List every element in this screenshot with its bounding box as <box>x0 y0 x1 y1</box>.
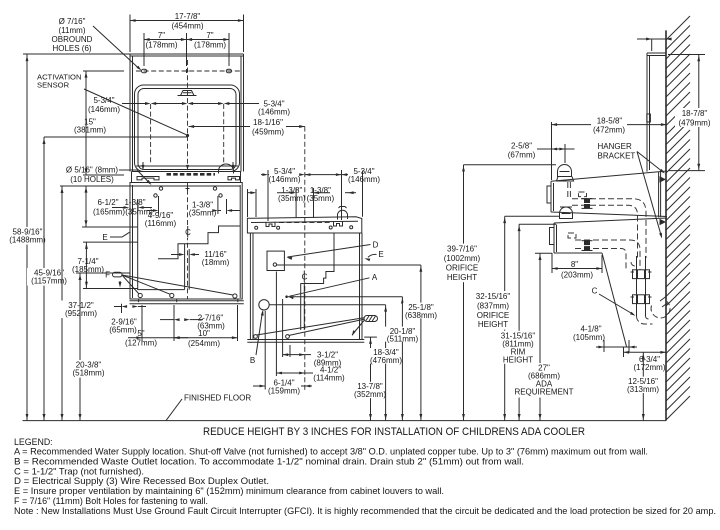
short unit rim plate <box>247 217 361 233</box>
internal drain pipe tall unit <box>184 244 186 290</box>
dim 1-3/8 cabinet edge <box>112 207 126 209</box>
A supply point <box>285 295 288 298</box>
svg-text:SENSOR: SENSOR <box>37 81 70 90</box>
svg-text:(35mm): (35mm) <box>307 194 335 203</box>
hanger bracket top detail <box>647 114 651 122</box>
svg-text:(146mm): (146mm) <box>258 107 290 116</box>
basin tall unit outer <box>135 85 240 172</box>
svg-text:(159mm): (159mm) <box>268 387 300 396</box>
svg-text:5-3/4": 5-3/4" <box>93 96 114 105</box>
svg-text:(185mm): (185mm) <box>72 265 104 274</box>
svg-text:HANGER: HANGER <box>598 142 632 151</box>
lower unit bubbler dome in left view <box>219 164 234 174</box>
dim 4-1/2 <box>276 372 304 374</box>
svg-text:E: E <box>102 233 107 242</box>
upper unit valve block <box>584 199 590 203</box>
svg-text:1-3/8": 1-3/8" <box>124 198 145 207</box>
svg-text:(165mm): (165mm) <box>93 208 125 217</box>
upper unit underside <box>551 212 667 217</box>
cabinet centerline <box>187 182 189 299</box>
upper bubbler side view <box>557 165 574 181</box>
extension verticals below short unit <box>264 311 266 390</box>
svg-text:(459mm): (459mm) <box>252 128 284 137</box>
svg-text:D = Electrical Supply (3) Wire: D = Electrical Supply (3) Wire Recessed … <box>14 476 269 486</box>
dim 8 inch knee depth <box>551 253 553 273</box>
side view lower unit front face <box>553 223 555 253</box>
svg-text:(18mm): (18mm) <box>202 258 230 267</box>
centerline symbol short unit <box>301 271 308 282</box>
svg-text:B = Recommended Waste Outlet l: B = Recommended Waste Outlet location. T… <box>14 456 524 466</box>
svg-text:32-15/16": 32-15/16" <box>476 292 511 301</box>
dim 17-7/8 454mm top width <box>129 15 131 53</box>
wall section line <box>665 30 667 420</box>
svg-text:(172mm): (172mm) <box>633 363 665 372</box>
svg-text:(178mm): (178mm) <box>194 41 226 50</box>
hanger bracket plate edge-on <box>658 172 660 218</box>
upper unit internal piping dashed <box>572 199 646 258</box>
outlet height ref line <box>277 264 421 266</box>
dim 6-1/4 <box>253 385 265 387</box>
dim 3-1/2 <box>283 354 305 356</box>
leaders F to bolt holes <box>122 275 139 294</box>
dim 32-15/16 orifice height <box>505 215 559 217</box>
dim 39-7/16 orifice height <box>464 164 557 166</box>
dashed hole extension right <box>223 104 225 163</box>
svg-text:(11mm): (11mm) <box>59 26 86 35</box>
short unit rim bolt dots <box>255 226 258 229</box>
dim 5-3/4 basin line <box>122 103 148 105</box>
upper hanger bracket at wall <box>660 176 667 182</box>
svg-text:39-7/16": 39-7/16" <box>447 245 477 254</box>
lower holes row arrows <box>136 165 238 167</box>
lower hanger bracket at wall <box>660 219 667 225</box>
bubbler tall unit <box>178 91 197 96</box>
svg-text:(35mm): (35mm) <box>278 194 306 203</box>
svg-text:8": 8" <box>571 260 578 269</box>
dim 6-1/2 vertical <box>85 186 87 227</box>
svg-text:C: C <box>592 287 598 296</box>
dim 6-3/4 <box>623 347 625 357</box>
internal trap stair tall unit <box>158 226 241 259</box>
svg-text:(146mm): (146mm) <box>268 175 300 184</box>
dim 2-9/16 <box>121 304 123 313</box>
svg-text:(178mm): (178mm) <box>145 41 177 50</box>
svg-text:B: B <box>250 356 255 365</box>
svg-text:(476mm): (476mm) <box>370 356 402 365</box>
svg-text:(203mm): (203mm) <box>561 271 593 280</box>
dim 12-5/16 height <box>642 352 644 420</box>
svg-text:(1488mm): (1488mm) <box>9 236 46 245</box>
svg-text:(1002mm): (1002mm) <box>444 254 481 263</box>
dim 31-15/16 rim height <box>519 223 556 225</box>
svg-text:2-5/8": 2-5/8" <box>511 142 532 151</box>
svg-text:F: F <box>105 271 110 280</box>
svg-text:(454mm): (454mm) <box>171 22 203 31</box>
svg-text:Note : New Installations Must: Note : New Installations Must Use Ground… <box>14 506 716 516</box>
svg-text:BRACKET: BRACKET <box>598 152 636 161</box>
svg-text:(479mm): (479mm) <box>678 119 710 128</box>
svg-text:LEGEND:: LEGEND: <box>14 437 53 447</box>
svg-text:18-5/8": 18-5/8" <box>597 116 623 125</box>
side view upper unit front face <box>550 181 552 212</box>
B waste outlet circle <box>259 300 269 310</box>
cabinet of tall unit <box>130 183 242 300</box>
dim 7-1/4 louver height <box>83 241 138 243</box>
internal drain pipe short unit <box>300 284 302 331</box>
svg-text:REQUIREMENT: REQUIREMENT <box>514 388 573 397</box>
svg-text:17-7/8": 17-7/8" <box>175 12 201 21</box>
svg-text:(63mm): (63mm) <box>197 322 225 331</box>
dim 10 inch <box>237 305 239 341</box>
svg-text:(146mm): (146mm) <box>88 105 120 114</box>
short unit centerline <box>304 127 306 391</box>
lower unit underside and shroud diagonal <box>554 252 602 254</box>
svg-text:REDUCE HEIGHT BY 3 INCHES FOR: REDUCE HEIGHT BY 3 INCHES FOR INSTALLATI… <box>203 426 585 438</box>
svg-text:A: A <box>372 273 378 282</box>
svg-text:(105mm): (105mm) <box>573 333 605 342</box>
short unit rim hooks <box>266 222 275 227</box>
wall hatching <box>666 16 690 420</box>
svg-text:HEIGHT: HEIGHT <box>478 320 508 329</box>
svg-text:18-1/16": 18-1/16" <box>253 118 283 127</box>
lower unit internal piping dashed <box>575 240 640 270</box>
basin centerline dashed <box>187 60 189 170</box>
svg-text:ORIFICE: ORIFICE <box>477 311 509 320</box>
lower unit top slope <box>554 218 667 223</box>
svg-text:HEIGHT: HEIGHT <box>447 273 477 282</box>
svg-text:(352mm): (352mm) <box>354 390 386 399</box>
extension lines 5-3/4 short <box>267 170 269 221</box>
lower bubbler side view <box>560 207 573 219</box>
svg-text:6-1/2": 6-1/2" <box>97 198 118 207</box>
dim 25-1/8 height <box>420 265 422 421</box>
svg-text:7": 7" <box>158 31 165 40</box>
leaders to wall anchor <box>257 318 365 335</box>
left height dim 58-9/16 <box>26 54 28 421</box>
dim 18-5/8 projection <box>552 124 592 126</box>
dim 20-1/8 height <box>401 297 403 421</box>
short unit bottom flange <box>247 339 364 341</box>
short unit cabinet <box>250 233 362 340</box>
dim 18-7/8 height at wall <box>668 54 705 56</box>
svg-text:(511mm): (511mm) <box>387 334 419 343</box>
svg-text:18-7/8": 18-7/8" <box>682 109 708 118</box>
svg-text:7": 7" <box>206 31 213 40</box>
left height dim 37-1/2 <box>61 186 63 421</box>
dim 18-1/16 bubbler spacing <box>189 126 251 128</box>
sensor dot <box>186 134 189 137</box>
apron rim of tall unit <box>132 171 241 173</box>
svg-text:(114mm): (114mm) <box>313 374 345 383</box>
left height dim 20-3/8 <box>79 273 81 421</box>
short unit rim edge extensions <box>247 189 249 217</box>
svg-text:(381mm): (381mm) <box>74 126 106 135</box>
svg-text:(952mm): (952mm) <box>65 309 97 318</box>
left height dim 45-9/16 <box>44 136 187 138</box>
wall stub dashed arc <box>651 302 670 318</box>
trap assembly solid <box>637 256 646 316</box>
svg-text:(127mm): (127mm) <box>125 339 157 348</box>
leader activation sensor to sensor dot <box>84 89 186 135</box>
svg-text:(638mm): (638mm) <box>405 311 437 320</box>
cabinet bottom flange <box>130 300 244 302</box>
svg-text:C = 1-1/2" Trap (not furnished: C = 1-1/2" Trap (not furnished). <box>14 466 144 476</box>
svg-text:(65mm): (65mm) <box>109 326 137 335</box>
dim 11/16 drain offset <box>171 254 182 256</box>
electrical outlet box <box>267 251 284 270</box>
svg-text:5": 5" <box>137 329 144 338</box>
dim 2-5/8 bubbler offset <box>551 122 553 180</box>
short unit bubbler dome <box>338 207 348 220</box>
dim 27 ada requirement <box>535 252 552 254</box>
svg-text:(518mm): (518mm) <box>72 369 104 378</box>
lower unit valve block <box>584 241 590 245</box>
svg-text:D: D <box>373 241 379 250</box>
arrow to louver bottom <box>119 282 122 288</box>
svg-text:(10 HOLES): (10 HOLES) <box>70 175 114 184</box>
basin tall unit inner <box>138 89 236 170</box>
front view tall unit - wall back panel <box>23 53 244 55</box>
dashed hole extension left <box>150 104 152 163</box>
svg-text:E: E <box>378 250 383 259</box>
svg-text:(254mm): (254mm) <box>188 339 220 348</box>
cabinet top band bolt holes <box>159 187 162 190</box>
svg-text:(472mm): (472mm) <box>593 126 625 135</box>
F bolt holes on cabinet bottom <box>138 293 142 297</box>
dim ref line holes row 186 <box>60 185 240 187</box>
dim 5 inch <box>141 305 143 341</box>
svg-text:(67mm): (67mm) <box>508 151 536 160</box>
louver panel tall unit <box>138 199 185 290</box>
hanger bracket leaders <box>637 152 663 173</box>
dim 5-3/4 short unit right <box>305 174 342 176</box>
svg-text:(146mm): (146mm) <box>348 175 380 184</box>
in-wall mounting panel edge <box>646 53 648 172</box>
apron left bracket <box>137 177 159 180</box>
trap J bend dashed to wall <box>637 316 653 324</box>
svg-text:OBROUND: OBROUND <box>52 35 93 44</box>
svg-text:ORIFICE: ORIFICE <box>446 263 478 272</box>
dim 18-3/4 height <box>385 305 387 421</box>
svg-text:Ø 5/16" (8mm): Ø 5/16" (8mm) <box>66 166 119 175</box>
apron right bracket <box>228 177 240 180</box>
lower unit push bar <box>550 228 555 245</box>
A height ref line <box>288 296 402 298</box>
wall anchor obround hatched <box>364 316 378 322</box>
dim 7 inch left hole spacing <box>143 33 145 66</box>
svg-text:Ø 7/16": Ø 7/16" <box>59 17 86 26</box>
dim 13-7/8 height <box>364 336 377 338</box>
finished floor line <box>23 420 667 422</box>
dim 4-1/8 <box>603 340 605 352</box>
B height ref line <box>269 304 385 306</box>
side view upper unit top slope <box>551 171 667 181</box>
svg-text:FINISHED FLOOR: FINISHED FLOOR <box>184 394 251 403</box>
svg-text:A = Recommended Water Supply l: A = Recommended Water Supply location. S… <box>14 447 648 457</box>
svg-text:E = Insure proper ventilation: E = Insure proper ventilation by maintai… <box>14 486 444 496</box>
centerline symbol tall unit <box>185 227 192 238</box>
svg-text:(837mm): (837mm) <box>477 301 509 310</box>
upper unit push bar <box>547 186 551 203</box>
svg-text:F = 7/16" (11mm) Bolt Holes fo: F = 7/16" (11mm) Bolt Holes for fastenin… <box>14 496 208 506</box>
obround mounting holes row <box>136 70 240 72</box>
svg-text:(116mm): (116mm) <box>145 219 177 228</box>
svg-text:(313mm): (313mm) <box>627 385 659 394</box>
svg-text:HOLES (6): HOLES (6) <box>52 44 91 53</box>
dim 15 inch sensor height <box>83 70 124 72</box>
apron hatched drain band <box>167 173 216 176</box>
panel depth dim at top <box>651 39 653 51</box>
internal trap stair short unit <box>301 233 335 284</box>
